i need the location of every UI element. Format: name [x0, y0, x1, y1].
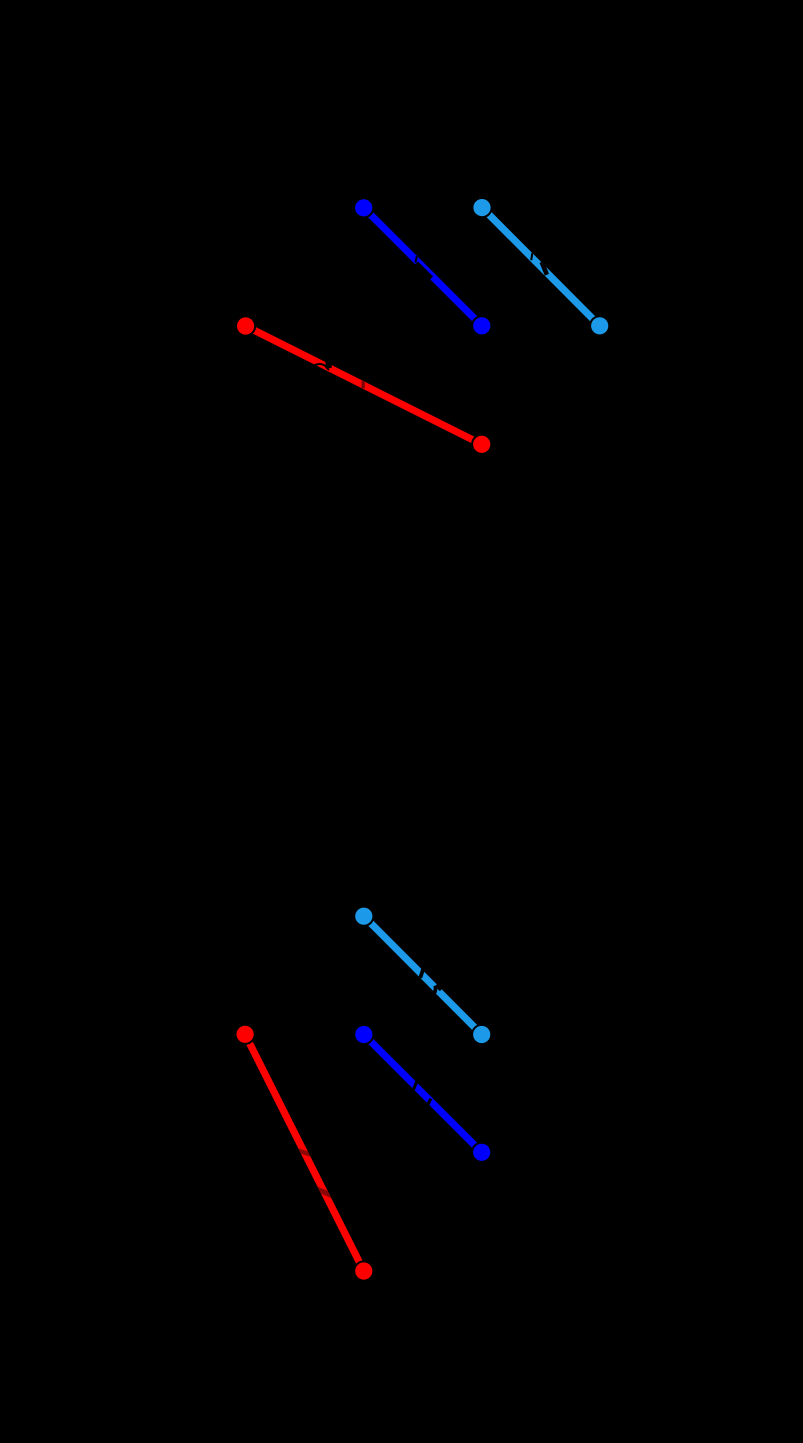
- series A label cutout slash: [415, 256, 417, 262]
- series A line (dark blue, top group): [364, 208, 482, 326]
- marker B start: [472, 198, 491, 217]
- marker F end: [354, 1261, 373, 1280]
- series C line (red, top group): [246, 326, 482, 444]
- series C label cutout swoosh: [313, 364, 329, 370]
- marker A end: [472, 316, 491, 335]
- marker D end: [472, 1025, 491, 1044]
- series F label dark band 2: [317, 1189, 333, 1196]
- series D label cutout gap 1: [420, 967, 424, 978]
- series D label cutout gap 2: [433, 986, 435, 995]
- series F line (red, bottom group): [245, 1034, 364, 1271]
- series D label cutout top notch 2: [436, 985, 441, 990]
- series B line (light blue, top group): [482, 208, 600, 326]
- series C label dark band: [362, 381, 365, 389]
- marker B end: [590, 316, 609, 335]
- marker E end: [472, 1143, 491, 1162]
- series F label dark band 1: [297, 1150, 313, 1155]
- marker C end: [472, 435, 491, 454]
- series E label cutout slash 2: [427, 1099, 431, 1107]
- series B label cutout gap: [542, 262, 547, 275]
- series E line (dark blue, bottom group): [364, 1035, 482, 1153]
- marker F start: [236, 1025, 255, 1044]
- series C label cutout wedge: [325, 361, 332, 368]
- series E label cutout slash 1: [413, 1081, 417, 1090]
- marker D start: [354, 907, 373, 926]
- series D label cutout top notch: [425, 967, 431, 972]
- series A label cutout lower bite: [416, 263, 431, 278]
- marker E start: [354, 1025, 373, 1044]
- series D line (light blue, bottom group): [364, 916, 482, 1034]
- marker C start: [236, 316, 255, 335]
- series B label cutout slash: [531, 253, 532, 260]
- marker A start: [354, 198, 373, 217]
